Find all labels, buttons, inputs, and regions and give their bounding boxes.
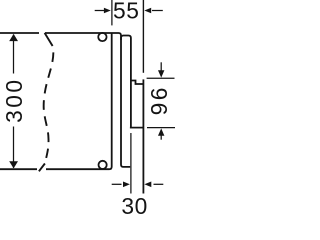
- svg-text:300: 300: [1, 78, 27, 123]
- svg-text:55: 55: [113, 0, 140, 23]
- svg-text:96: 96: [146, 85, 172, 115]
- svg-text:30: 30: [121, 193, 148, 219]
